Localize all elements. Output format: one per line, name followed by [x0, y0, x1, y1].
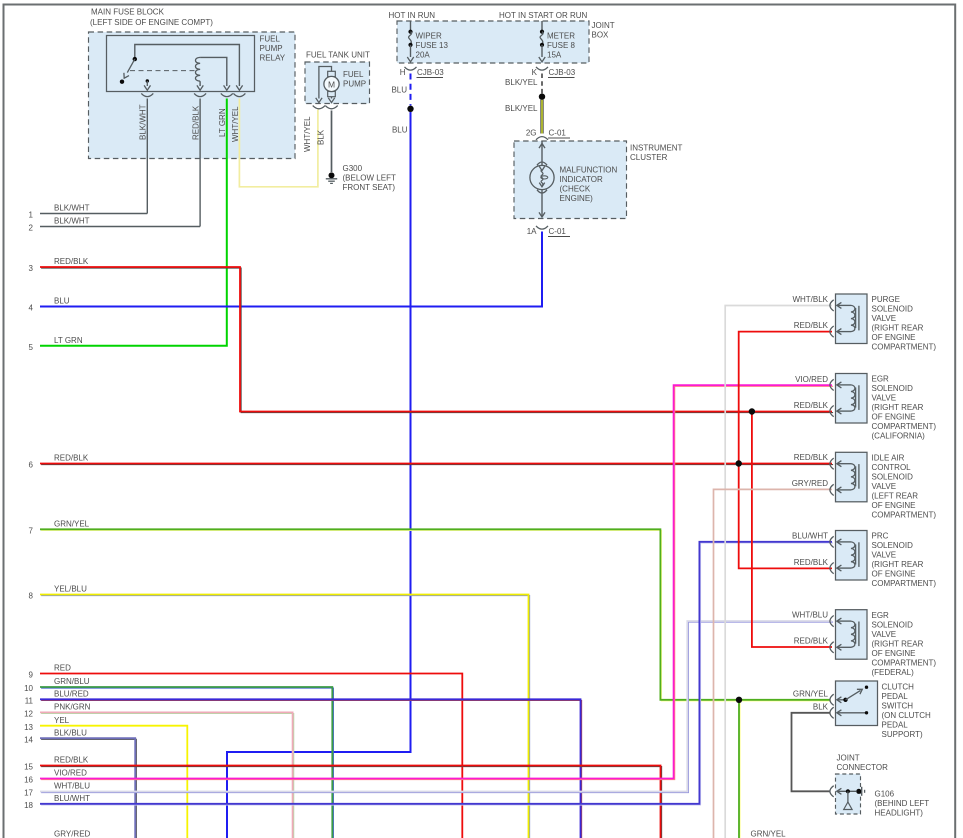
PRC pin labels — [792, 531, 829, 567]
svg-text:18: 18 — [24, 801, 33, 810]
fuel pump internal wiring to pins — [319, 67, 332, 99]
svg-text:1A: 1A — [527, 227, 537, 236]
svg-text:VALVE: VALVE — [872, 394, 897, 403]
EGR (California) pin labels — [794, 375, 829, 410]
instrument cluster dashed box — [514, 141, 627, 219]
svg-text:BLK/WHT: BLK/WHT — [54, 204, 90, 213]
svg-text:C-01: C-01 — [549, 227, 567, 236]
svg-text:(CHECK: (CHECK — [560, 185, 591, 194]
svg-text:15A: 15A — [547, 51, 562, 60]
svg-text:COMPARTMENT): COMPARTMENT) — [872, 343, 937, 352]
svg-text:C-01: C-01 — [549, 129, 567, 138]
node 17 WHT/BLU label — [24, 782, 90, 798]
svg-text:15: 15 — [24, 763, 33, 772]
svg-text:6: 6 — [29, 461, 34, 470]
wire 16 VIO/RED to EGR solenoid (California) — [40, 385, 833, 779]
svg-text:HOT IN RUN: HOT IN RUN — [389, 11, 436, 20]
node 6 RED/BLK label — [29, 454, 89, 470]
svg-text:RED/BLK: RED/BLK — [54, 756, 89, 765]
svg-text:9: 9 — [29, 671, 34, 680]
node RED/BLK junction on wire 6 — [736, 460, 742, 466]
wire BLK/YEL solid to instrument cluster — [540, 100, 543, 134]
purge solenoid valve — [830, 294, 867, 344]
main fuse block dashed box — [89, 32, 296, 159]
wire LT GRN relay to wire 5 — [40, 99, 227, 346]
svg-text:VIO/RED: VIO/RED — [795, 375, 828, 384]
svg-text:FUEL: FUEL — [260, 35, 281, 44]
fuse 8 label — [547, 32, 576, 60]
svg-text:FUEL: FUEL — [343, 70, 364, 79]
connector 1A C-01 — [527, 226, 570, 237]
node RED/BLK junction on wire 3 — [749, 408, 755, 414]
idle air control solenoid valve — [830, 452, 867, 502]
wire 14 BLK/BLU — [40, 738, 136, 838]
svg-text:BLU: BLU — [392, 126, 408, 135]
connector H CJB-03 — [400, 67, 445, 78]
svg-text:SOLENOID: SOLENOID — [872, 620, 914, 629]
wire 18 BLU/WHT to PRC solenoid — [40, 542, 833, 805]
wire BLU long run to bottom — [227, 112, 411, 838]
wire 8 YEL/BLU — [40, 595, 530, 838]
svg-text:RED/BLK: RED/BLK — [192, 105, 201, 140]
svg-text:17: 17 — [24, 789, 33, 798]
svg-text:(FEDERAL): (FEDERAL) — [872, 668, 915, 677]
node 2 BLK/WHT label — [29, 217, 90, 233]
node BLK/YEL splice — [539, 94, 545, 100]
svg-text:GRN/BLU: GRN/BLU — [54, 677, 90, 686]
PRC solenoid valve — [830, 531, 867, 581]
svg-text:(RIGHT REAR: (RIGHT REAR — [872, 324, 924, 333]
svg-text:GRY/RED: GRY/RED — [792, 479, 829, 488]
svg-text:CLUTCH: CLUTCH — [882, 683, 915, 692]
svg-text:METER: METER — [547, 32, 575, 41]
svg-text:RED/BLK: RED/BLK — [794, 558, 829, 567]
svg-text:WHT/BLU: WHT/BLU — [54, 782, 90, 791]
svg-text:(RIGHT REAR: (RIGHT REAR — [872, 639, 924, 648]
wire 3 RED/BLK to EGR solenoid (California) — [40, 267, 833, 413]
svg-text:5: 5 — [29, 343, 34, 352]
svg-text:BLU/WHT: BLU/WHT — [792, 531, 828, 540]
svg-text:MALFUNCTION: MALFUNCTION — [560, 166, 618, 175]
svg-text:OF ENGINE: OF ENGINE — [872, 501, 916, 510]
svg-text:2: 2 — [29, 224, 34, 233]
svg-text:IDLE AIR: IDLE AIR — [872, 454, 905, 463]
svg-text:BLK: BLK — [317, 129, 326, 145]
svg-text:RED/BLK: RED/BLK — [794, 401, 829, 410]
svg-text:(RIGHT REAR: (RIGHT REAR — [872, 403, 924, 412]
node 10 GRN/BLU label — [24, 677, 90, 693]
svg-text:2G: 2G — [526, 129, 537, 138]
svg-text:(LEFT REAR: (LEFT REAR — [872, 492, 919, 501]
svg-text:GRN/YEL: GRN/YEL — [751, 830, 787, 838]
wire RED/BLK branch to EGR solenoid (Federal) — [752, 412, 832, 648]
svg-text:INSTRUMENT: INSTRUMENT — [630, 144, 683, 153]
svg-text:BLU/RED: BLU/RED — [54, 690, 89, 699]
svg-text:13: 13 — [24, 723, 33, 732]
main fuse block label — [90, 8, 213, 28]
svg-text:WIPER: WIPER — [416, 32, 442, 41]
malfunction indicator label — [560, 166, 618, 204]
svg-text:JOINT: JOINT — [592, 21, 615, 30]
svg-text:SOLENOID: SOLENOID — [872, 305, 914, 314]
idle air control solenoid valve label — [872, 454, 937, 520]
svg-text:COMPARTMENT): COMPARTMENT) — [872, 511, 937, 520]
wire 11 BLU/RED — [40, 699, 582, 838]
svg-text:GRY/RED: GRY/RED — [54, 830, 91, 838]
node 9 RED label — [29, 664, 72, 680]
svg-text:SOLENOID: SOLENOID — [872, 473, 914, 482]
svg-text:CONTROL: CONTROL — [872, 463, 912, 472]
svg-text:VIO/RED: VIO/RED — [54, 769, 87, 778]
fuel pump label — [343, 70, 366, 89]
fuel tank unit dashed box — [305, 62, 370, 104]
svg-text:PRC: PRC — [872, 532, 889, 541]
BLK/YEL labels — [505, 78, 538, 113]
fuel pump relay K1 box — [107, 36, 255, 92]
node 13 YEL label — [24, 716, 70, 732]
EGR (California) solenoid valve label — [872, 375, 937, 441]
svg-text:BLK/WHT: BLK/WHT — [54, 217, 90, 226]
relay switch contacts — [120, 57, 137, 84]
joint box label — [592, 21, 615, 40]
wire RED/BLK relay pin drop — [199, 99, 201, 227]
PRC solenoid valve label — [872, 532, 937, 589]
svg-text:BLK/WHT: BLK/WHT — [139, 104, 148, 140]
node GRN/YEL junction — [736, 697, 742, 703]
wire 7 GRN/YEL to clutch pedal switch — [40, 529, 831, 701]
svg-text:(ON CLUTCH: (ON CLUTCH — [882, 711, 932, 720]
wire 6 RED/BLK to idle air control solenoid — [40, 464, 833, 465]
svg-text:12: 12 — [24, 710, 33, 719]
svg-text:M: M — [328, 79, 335, 89]
joint box dashed box — [397, 21, 589, 63]
svg-text:(BELOW LEFT: (BELOW LEFT — [343, 174, 396, 183]
svg-text:CJB-03: CJB-03 — [417, 68, 444, 77]
svg-text:SWITCH: SWITCH — [882, 702, 914, 711]
ground G300 — [326, 172, 337, 183]
node 14 BLK/BLU label — [24, 728, 87, 744]
svg-text:RELAY: RELAY — [260, 54, 286, 63]
svg-text:RED/BLK: RED/BLK — [54, 454, 89, 463]
svg-text:LT GRN: LT GRN — [218, 108, 227, 137]
svg-text:EGR: EGR — [872, 375, 890, 384]
svg-text:(RIGHT REAR: (RIGHT REAR — [872, 560, 924, 569]
wire BLK/YEL dashed segment — [541, 74, 543, 94]
svg-text:OF ENGINE: OF ENGINE — [872, 649, 916, 658]
svg-text:PEDAL: PEDAL — [882, 692, 909, 701]
svg-text:SUPPORT): SUPPORT) — [882, 730, 924, 739]
relay coil — [195, 57, 200, 81]
instrument cluster label — [630, 144, 683, 163]
wire WHT/BLK purge solenoid to bottom — [725, 306, 832, 838]
clutch pedal switch S1 — [830, 681, 878, 726]
node 12 PNK/GRN label — [24, 703, 91, 719]
fuse 13 WIPER 20A — [407, 21, 413, 62]
svg-text:BLU: BLU — [54, 297, 70, 306]
wire 12 PNK/GRN — [40, 712, 294, 838]
wire RED/BLK purge + PRC solenoid branch — [739, 332, 832, 569]
relay pin labels — [139, 104, 240, 142]
svg-text:WHT/BLK: WHT/BLK — [792, 295, 828, 304]
wire BLK clutch switch to joint connector — [792, 713, 831, 792]
wire BLK fuel pump to G300 — [331, 111, 333, 173]
svg-text:COMPARTMENT): COMPARTMENT) — [872, 658, 937, 667]
svg-text:JOINT: JOINT — [837, 754, 860, 763]
svg-text:WHT/YEL: WHT/YEL — [303, 116, 312, 152]
relay pin connectors — [141, 93, 245, 96]
svg-text:FUEL TANK UNIT: FUEL TANK UNIT — [306, 51, 370, 60]
svg-text:RED: RED — [54, 664, 71, 673]
svg-text:LT GRN: LT GRN — [54, 336, 83, 345]
svg-text:PEDAL: PEDAL — [882, 721, 909, 730]
svg-text:CJB-03: CJB-03 — [549, 68, 576, 77]
svg-text:VALVE: VALVE — [872, 630, 897, 639]
fuse 13 label — [416, 32, 449, 60]
svg-text:8: 8 — [29, 592, 34, 601]
EGR solenoid valve (California) — [830, 374, 867, 424]
ground G106 label — [875, 790, 930, 818]
svg-text:MAIN FUSE BLOCK: MAIN FUSE BLOCK — [91, 8, 165, 17]
svg-text:PNK/GRN: PNK/GRN — [54, 703, 91, 712]
ground G300 label — [343, 164, 396, 192]
svg-text:RED/BLK: RED/BLK — [794, 637, 829, 646]
relay coil bottom to RED/BLK pin — [199, 81, 201, 86]
svg-text:HOT IN START OR RUN: HOT IN START OR RUN — [499, 11, 588, 20]
svg-text:H: H — [400, 68, 406, 77]
relay internal wire (switch common to WHT/YEL pin) — [135, 45, 240, 87]
joint connector dashed box — [836, 774, 861, 814]
svg-text:VALVE: VALVE — [872, 551, 897, 560]
svg-text:K: K — [532, 68, 538, 77]
svg-text:BLK/BLU: BLK/BLU — [54, 728, 87, 737]
svg-text:BLK/YEL: BLK/YEL — [505, 104, 538, 113]
svg-text:PUMP: PUMP — [260, 44, 283, 53]
svg-text:INDICATOR: INDICATOR — [560, 175, 603, 184]
wire 1 BLK/WHT — [40, 213, 147, 215]
connector K CJB-03 — [532, 67, 576, 78]
svg-text:RED/BLK: RED/BLK — [794, 321, 829, 330]
wire 9 RED — [40, 674, 462, 838]
svg-text:BOX: BOX — [592, 31, 610, 40]
node 16 VIO/RED label — [24, 769, 87, 785]
svg-text:SOLENOID: SOLENOID — [872, 384, 914, 393]
relay switch linkage (dashed) — [130, 70, 196, 72]
malfunction indicator lamp — [530, 141, 554, 217]
svg-text:OF ENGINE: OF ENGINE — [872, 570, 916, 579]
node 5 LT GRN label — [29, 336, 83, 352]
node 18 BLU/WHT label — [24, 794, 90, 810]
svg-text:FRONT SEAT): FRONT SEAT) — [343, 183, 396, 192]
svg-text:FUSE 8: FUSE 8 — [547, 41, 576, 50]
node 11 BLU/RED label — [25, 690, 89, 706]
joint connector internals — [830, 786, 865, 797]
svg-text:SOLENOID: SOLENOID — [872, 541, 914, 550]
wire GRY/RED idle air solenoid to bottom — [714, 489, 833, 838]
svg-text:7: 7 — [29, 527, 34, 536]
wire GRN/YEL branch to bottom — [739, 700, 740, 838]
svg-text:(CALIFORNIA): (CALIFORNIA) — [872, 432, 926, 441]
svg-text:OF ENGINE: OF ENGINE — [872, 413, 916, 422]
svg-text:14: 14 — [24, 735, 33, 744]
svg-text:EGR: EGR — [872, 611, 890, 620]
wire WHT/YEL relay to fuel pump — [239, 99, 318, 187]
node 8 YEL/BLU label — [29, 585, 88, 601]
wire 2 BLK/WHT — [40, 226, 200, 228]
EGR solenoid valve (Federal) — [830, 610, 867, 660]
relay coil top to LT GRN pin — [200, 57, 227, 86]
svg-text:GRN/YEL: GRN/YEL — [54, 520, 90, 529]
svg-text:WHT/BLU: WHT/BLU — [792, 611, 828, 620]
EGR (Federal) solenoid valve label — [872, 611, 937, 677]
node 15 RED/BLK label — [24, 756, 89, 772]
svg-text:CONNECTOR: CONNECTOR — [837, 763, 889, 772]
svg-text:HEADLIGHT): HEADLIGHT) — [875, 809, 924, 818]
wire 15 RED/BLK — [40, 766, 662, 838]
svg-text:COMPARTMENT): COMPARTMENT) — [872, 579, 937, 588]
svg-text:PUMP: PUMP — [343, 80, 366, 89]
node 7 GRN/YEL label — [29, 520, 90, 536]
svg-text:BLU: BLU — [391, 86, 407, 95]
purge solenoid valve label — [872, 295, 937, 352]
svg-text:RED/BLK: RED/BLK — [794, 453, 829, 462]
node 1 BLK/WHT label — [29, 204, 90, 220]
wire 10 GRN/BLU — [40, 687, 333, 838]
svg-text:COMPARTMENT): COMPARTMENT) — [872, 422, 937, 431]
svg-text:G300: G300 — [343, 164, 363, 173]
wire 17 WHT/BLU to EGR solenoid (Federal) — [40, 621, 833, 793]
svg-text:3: 3 — [29, 264, 34, 273]
purge pin labels — [792, 295, 828, 330]
node BLU splice — [407, 106, 413, 112]
svg-text:BLK: BLK — [813, 702, 829, 711]
svg-text:1: 1 — [29, 211, 34, 220]
joint connector label — [837, 754, 889, 773]
svg-text:16: 16 — [24, 776, 33, 785]
svg-text:YEL/BLU: YEL/BLU — [54, 585, 87, 594]
svg-text:(BEHIND LEFT: (BEHIND LEFT — [875, 799, 930, 808]
fuel pump motor M — [324, 71, 339, 96]
wire BLK/WHT relay pin drop — [146, 99, 148, 214]
svg-text:G106: G106 — [875, 790, 895, 799]
svg-text:VALVE: VALVE — [872, 482, 897, 491]
svg-text:(LEFT SIDE OF ENGINE COMPT): (LEFT SIDE OF ENGINE COMPT) — [90, 18, 213, 27]
svg-text:PURGE: PURGE — [872, 295, 900, 304]
svg-text:GRN/YEL: GRN/YEL — [793, 689, 829, 698]
svg-text:10: 10 — [24, 684, 33, 693]
svg-text:CLUSTER: CLUSTER — [630, 153, 668, 162]
relay fixed contact to BLK/WHT pin — [144, 79, 150, 90]
svg-text:BLK/YEL: BLK/YEL — [505, 78, 538, 87]
connector 2G C-01 — [526, 129, 570, 140]
svg-text:RED/BLK: RED/BLK — [54, 257, 89, 266]
svg-text:BLU/WHT: BLU/WHT — [54, 794, 90, 803]
svg-text:FUSE 13: FUSE 13 — [416, 41, 449, 50]
wire 13 YEL — [40, 726, 187, 838]
fuse 8 METER 15A — [539, 21, 545, 62]
svg-text:11: 11 — [25, 697, 34, 706]
svg-text:ENGINE): ENGINE) — [560, 194, 594, 203]
BLU labels — [391, 86, 407, 135]
svg-text:OF ENGINE: OF ENGINE — [872, 333, 916, 342]
fuel pump relay label — [260, 35, 286, 63]
node 3 RED/BLK label — [29, 257, 89, 273]
svg-text:WHT/YEL: WHT/YEL — [231, 106, 240, 142]
clutch pedal switch pin labels — [793, 689, 829, 711]
svg-text:VALVE: VALVE — [872, 314, 897, 323]
joint connector ground G106 — [844, 791, 852, 809]
clutch pedal switch label — [882, 683, 932, 740]
svg-text:YEL: YEL — [54, 716, 70, 725]
node 4 BLU label — [29, 297, 70, 313]
idle air pin labels — [792, 453, 829, 488]
EGR (Federal) pin labels — [792, 611, 829, 646]
wire BLU instrument cluster to wire 4 — [40, 232, 542, 307]
wire BLU dashed segment — [410, 74, 412, 106]
fuel pump pin connectors — [313, 106, 338, 109]
svg-text:20A: 20A — [416, 51, 431, 60]
fuel pump pin labels — [303, 116, 326, 152]
svg-text:4: 4 — [29, 304, 34, 313]
